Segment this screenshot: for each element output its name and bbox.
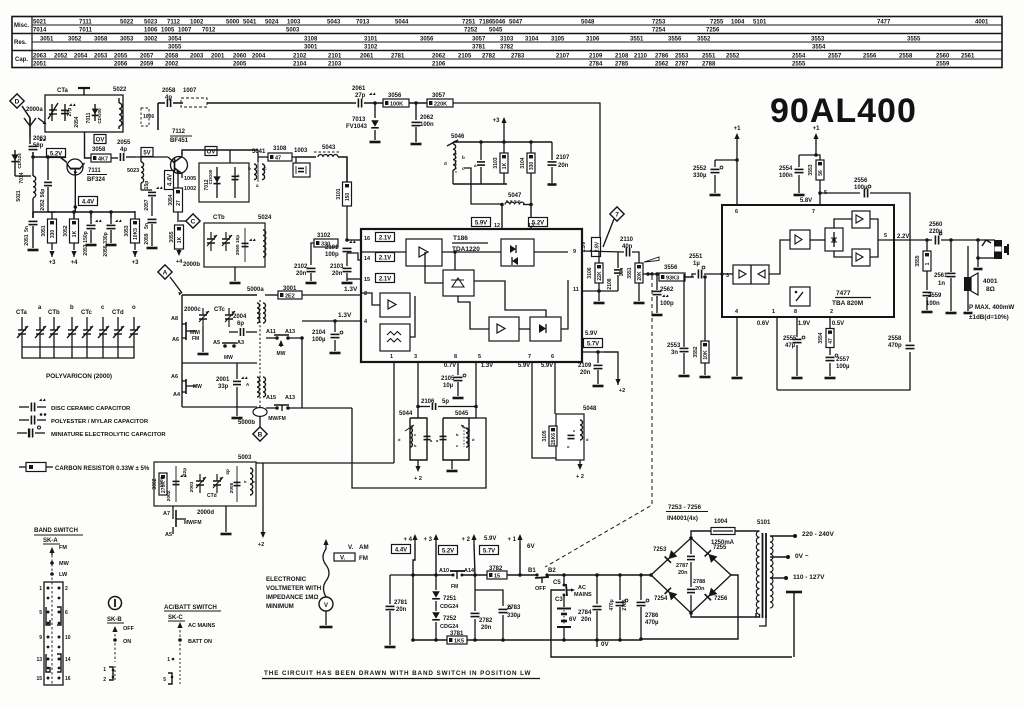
legend carbon resistor symbol — [19, 466, 26, 468]
svg-text:7477: 7477 — [877, 20, 891, 26]
svg-text:3108: 3108 — [304, 37, 318, 43]
svg-text:47µ: 47µ — [785, 343, 796, 349]
svg-text:2.1V: 2.1V — [379, 255, 391, 261]
svg-text:2556: 2556 — [854, 178, 868, 184]
svg-text:OFF: OFF — [535, 586, 547, 592]
svg-text:6p: 6p — [237, 321, 244, 327]
wire 5003 right — [262, 463, 264, 536]
svg-text:10K5: 10K5 — [133, 228, 139, 240]
voltage 4.4V ps — [392, 545, 411, 554]
svg-text:20n: 20n — [695, 586, 705, 592]
svg-text:2551: 2551 — [689, 254, 703, 260]
svg-text:9: 9 — [573, 249, 576, 255]
resistor 3106 B22K — [598, 251, 600, 263]
svg-text:3053: 3053 — [124, 225, 130, 236]
wire pin3 down — [417, 362, 419, 418]
svg-text:2782: 2782 — [482, 54, 496, 60]
voltage 5.2V — [47, 149, 66, 158]
svg-text:2110: 2110 — [634, 54, 648, 60]
supply +2 2109 — [617, 383, 619, 385]
svg-text:330: 330 — [529, 162, 535, 171]
svg-text:5.9V: 5.9V — [518, 363, 530, 369]
svg-text:3104: 3104 — [520, 157, 526, 168]
svg-text:7477: 7477 — [836, 290, 851, 297]
amp out block top — [852, 211, 870, 228]
resistor 3553 B56 — [816, 160, 824, 180]
svg-text:1006: 1006 — [144, 28, 158, 34]
svg-text:+1: +1 — [734, 126, 742, 132]
svg-text:2057: 2057 — [140, 54, 154, 60]
svg-text:o: o — [132, 305, 136, 311]
svg-text:3051: 3051 — [40, 37, 54, 43]
svg-text:2553: 2553 — [667, 343, 681, 349]
svg-text:0.5V: 0.5V — [832, 321, 844, 327]
svg-text:b: b — [248, 166, 251, 171]
wire pin1 down — [393, 362, 395, 463]
svg-text:3102: 3102 — [364, 45, 378, 51]
svg-text:A4: A4 — [173, 392, 181, 398]
svg-text:2004: 2004 — [252, 54, 266, 60]
wire to 2551 — [685, 274, 696, 277]
wire AGC arrow — [590, 245, 600, 251]
svg-text:7112: 7112 — [172, 129, 186, 135]
svg-text:5p: 5p — [442, 399, 449, 405]
svg-text:2560: 2560 — [929, 222, 943, 228]
svg-text:1: 1 — [772, 309, 775, 315]
svg-text:3553: 3553 — [811, 37, 825, 43]
svg-text:3551: 3551 — [627, 267, 633, 278]
svg-text:15: 15 — [494, 574, 500, 580]
wire 5024 gnd — [234, 267, 236, 281]
svg-text:1250mA: 1250mA — [711, 540, 735, 546]
svg-text:5.9V: 5.9V — [541, 363, 553, 369]
svg-text:5: 5 — [39, 610, 42, 616]
svg-text:SK-B: SK-B — [107, 617, 122, 623]
volume pot 3551 — [635, 263, 643, 283]
svg-text:C3: C3 — [555, 597, 563, 603]
svg-text:5023: 5023 — [127, 168, 139, 174]
svg-text:2003: 2003 — [190, 54, 204, 60]
amp output wire — [894, 239, 932, 241]
amp IC TBA820M box — [722, 205, 894, 317]
svg-text:2002: 2002 — [166, 490, 172, 501]
wire top AGC rail — [207, 102, 356, 104]
resistor 3055 1K — [175, 225, 184, 249]
svg-text:AC: AC — [578, 585, 586, 591]
svg-text:5n: 5n — [144, 223, 150, 229]
wire A13 join — [288, 338, 302, 408]
node A diamond — [158, 265, 172, 279]
svg-text:56: 56 — [818, 170, 824, 176]
svg-text:11: 11 — [573, 287, 579, 293]
svg-text:1005: 1005 — [161, 28, 175, 34]
wire pin6 down — [554, 362, 556, 414]
switch SK-B lever — [114, 628, 116, 632]
svg-text:CTb: CTb — [48, 310, 60, 316]
svg-text:A: A — [163, 269, 168, 276]
wire 5046 top — [453, 141, 552, 143]
svg-text:BF451: BF451 — [170, 138, 189, 144]
legend polyester capacitor symbol — [19, 419, 29, 421]
svg-text:3052: 3052 — [63, 225, 69, 236]
svg-text:2000b: 2000b — [183, 262, 200, 268]
wire pin14 — [347, 259, 361, 261]
svg-text:3106: 3106 — [586, 37, 600, 43]
svg-text:5044: 5044 — [399, 411, 413, 417]
amp pin4 wire — [736, 317, 738, 376]
svg-text:2005: 2005 — [233, 62, 247, 68]
svg-text:10n: 10n — [619, 268, 625, 277]
svg-text:100n: 100n — [779, 173, 793, 179]
svg-text:2554: 2554 — [779, 166, 793, 172]
antenna — [24, 118, 30, 126]
svg-text:15: 15 — [364, 277, 370, 283]
svg-text:3058: 3058 — [94, 37, 108, 43]
wire 2000c gnd — [202, 327, 204, 352]
svg-text:2.8V: 2.8V — [594, 241, 600, 252]
svg-text:Cap.: Cap. — [15, 57, 28, 63]
svg-text:5024: 5024 — [265, 20, 279, 26]
svg-text:20K: 20K — [637, 271, 643, 281]
voltage OV b — [205, 147, 217, 156]
wire antenna feed — [22, 106, 30, 137]
svg-text:330µ: 330µ — [507, 613, 521, 619]
capacitor 2053 150p — [90, 218, 92, 224]
svg-text:100µ: 100µ — [854, 185, 868, 191]
demod block diodes — [501, 239, 534, 266]
diode 7255 — [705, 550, 718, 563]
svg-text:47: 47 — [275, 156, 281, 162]
svg-text:7014: 7014 — [19, 172, 25, 183]
supply +1 right — [815, 135, 817, 141]
svg-text:+ 2: + 2 — [414, 476, 422, 482]
voltage 5.2V pin13 — [529, 218, 548, 227]
svg-text:27p: 27p — [355, 93, 366, 99]
svg-text:b: b — [70, 305, 74, 311]
svg-text:+ 2: + 2 — [461, 537, 470, 543]
svg-text:+3: +3 — [132, 260, 140, 266]
svg-text:14: 14 — [65, 657, 71, 663]
svg-text:1: 1 — [39, 586, 42, 592]
svg-text:7186: 7186 — [479, 20, 493, 26]
svg-text:2056: 2056 — [114, 62, 128, 68]
svg-text:3555: 3555 — [907, 37, 921, 43]
svg-text:5.9V: 5.9V — [484, 536, 496, 542]
svg-text:8Ω: 8Ω — [986, 286, 995, 293]
svg-text:2062: 2062 — [420, 115, 434, 121]
svg-text:20n: 20n — [396, 607, 407, 613]
wire pin5 down — [475, 362, 477, 418]
svg-text:3108: 3108 — [273, 146, 287, 152]
svg-text:100n: 100n — [420, 122, 434, 128]
svg-text:5045: 5045 — [489, 28, 503, 34]
wire base feed — [33, 152, 67, 163]
svg-text:330p: 330p — [103, 232, 109, 243]
svg-text:2551: 2551 — [702, 54, 716, 60]
svg-text:2106: 2106 — [432, 62, 446, 68]
svg-text:+2: +2 — [258, 542, 264, 548]
amp pin6 wire — [736, 160, 738, 205]
svg-text:25K6: 25K6 — [551, 433, 557, 445]
svg-text:CTc: CTc — [81, 310, 93, 316]
svg-text:100µ: 100µ — [836, 364, 850, 370]
amp mid block — [790, 230, 810, 249]
svg-text:2003: 2003 — [189, 481, 195, 492]
svg-text:3781: 3781 — [472, 45, 486, 51]
svg-text:MW/FM: MW/FM — [268, 416, 286, 422]
svg-text:3057: 3057 — [472, 37, 486, 43]
svg-text:2108: 2108 — [615, 54, 629, 60]
svg-text:3055: 3055 — [168, 45, 182, 51]
wire AM to 5045 — [352, 408, 486, 488]
coil 5022 — [119, 103, 122, 126]
wire 7111 base — [48, 156, 66, 158]
svg-text:7251: 7251 — [443, 596, 457, 602]
svg-text:7252: 7252 — [443, 616, 457, 622]
svg-text:1004: 1004 — [731, 20, 745, 26]
voltmeter symbol — [325, 541, 327, 549]
wire pin7 down — [531, 362, 533, 455]
svg-text:1.3V: 1.3V — [338, 312, 352, 319]
svg-text:7: 7 — [528, 354, 531, 360]
svg-text:1: 1 — [103, 667, 106, 673]
svg-text:2001: 2001 — [211, 54, 225, 60]
svg-text:MW: MW — [59, 561, 70, 567]
svg-text:VOLTMETER WITH: VOLTMETER WITH — [266, 585, 322, 592]
svg-text:BAND SWITCH: BAND SWITCH — [34, 527, 79, 534]
svg-text:Res.: Res. — [14, 40, 27, 46]
svg-text:5048: 5048 — [583, 406, 597, 412]
capacitor 2056 330p — [110, 218, 112, 224]
wire +1 left — [736, 141, 738, 160]
svg-text:B2: B2 — [548, 568, 556, 574]
svg-text:0.7V: 0.7V — [444, 363, 456, 369]
node D diamond — [10, 94, 24, 108]
resistor 3552 B10K — [701, 341, 709, 363]
svg-text:15p: 15p — [144, 181, 150, 190]
svg-text:2000d: 2000d — [197, 510, 214, 516]
wire pin11 — [582, 290, 618, 292]
svg-text:2557: 2557 — [828, 54, 842, 60]
svg-text:+ 1: + 1 — [507, 537, 516, 543]
amp block A3 — [489, 317, 519, 341]
svg-text:b: b — [462, 155, 465, 160]
diode 7256 — [705, 588, 718, 601]
svg-text:3056: 3056 — [420, 37, 434, 43]
svg-text:3551: 3551 — [630, 37, 644, 43]
svg-text:5021: 5021 — [16, 190, 22, 201]
svg-text:4p: 4p — [225, 469, 231, 475]
wire 7112 base — [168, 157, 175, 163]
amp internal wiring — [722, 273, 733, 275]
wire pin4 rail — [302, 320, 361, 322]
svg-text:2000c: 2000c — [184, 307, 201, 313]
svg-text:20n: 20n — [296, 271, 307, 277]
svg-text:1002: 1002 — [190, 20, 204, 26]
wire +1 right — [816, 141, 820, 161]
svg-text:2063: 2063 — [33, 54, 47, 60]
svg-text:3: 3 — [414, 354, 417, 360]
svg-text:5046: 5046 — [492, 20, 506, 26]
svg-text:2: 2 — [364, 291, 367, 297]
svg-text:2558: 2558 — [899, 54, 913, 60]
svg-text:7: 7 — [615, 211, 619, 218]
svg-text:7252: 7252 — [464, 28, 478, 34]
svg-text:470µ: 470µ — [609, 599, 615, 610]
svg-text:1.3V: 1.3V — [481, 363, 493, 369]
svg-text:V: V — [324, 603, 328, 609]
svg-text:2784: 2784 — [578, 610, 592, 616]
amp pin1 wire — [776, 317, 778, 390]
svg-text:5022: 5022 — [120, 20, 134, 26]
svg-text:330: 330 — [50, 230, 56, 239]
svg-text:7112: 7112 — [167, 20, 181, 26]
wire to pin16 — [347, 239, 361, 241]
svg-text:SK-C: SK-C — [168, 615, 183, 621]
svg-text:8: 8 — [794, 309, 797, 315]
wire collector 7111 — [85, 132, 92, 158]
wire 2058 stub — [157, 103, 159, 130]
svg-text:3105: 3105 — [542, 430, 548, 441]
svg-text:5045: 5045 — [455, 411, 469, 417]
supply +3 b — [134, 255, 136, 257]
svg-text:2782: 2782 — [479, 618, 493, 624]
legend miniature electrolytic symbol — [17, 432, 27, 434]
svg-text:4.4V: 4.4V — [395, 547, 407, 553]
svg-text:±1dB(d=10%): ±1dB(d=10%) — [969, 314, 1009, 321]
svg-text:3101: 3101 — [364, 37, 378, 43]
svg-text:IN4001(4x): IN4001(4x) — [667, 515, 698, 522]
svg-text:2108: 2108 — [607, 278, 613, 289]
svg-text:A7: A7 — [163, 511, 170, 517]
svg-text:3055: 3055 — [169, 231, 175, 242]
amp bias block — [825, 228, 843, 251]
wire 7112 out — [182, 150, 258, 155]
wire pin2 rail — [302, 293, 361, 295]
svg-text:5047: 5047 — [508, 193, 522, 199]
diode 7254 — [665, 588, 678, 601]
svg-text:5041: 5041 — [243, 20, 257, 26]
svg-text:5047: 5047 — [509, 20, 523, 26]
dashed net line — [545, 276, 652, 567]
svg-text:3782: 3782 — [500, 45, 514, 51]
svg-text:7011: 7011 — [86, 112, 92, 123]
diode 7012 CDG00 — [216, 167, 218, 198]
wire pin15 — [347, 278, 361, 280]
svg-text:5V: 5V — [143, 150, 150, 156]
svg-text:+2: +2 — [619, 388, 625, 394]
capacitor 2057 15p — [141, 189, 152, 191]
svg-text:AC MAINS: AC MAINS — [188, 623, 216, 629]
trimmer CTa inside — [51, 104, 53, 121]
svg-text:MW: MW — [277, 351, 286, 357]
svg-text:FM: FM — [359, 555, 368, 562]
svg-text:2102: 2102 — [293, 54, 307, 60]
svg-text:2061: 2061 — [360, 54, 374, 60]
svg-text:0V: 0V — [601, 641, 609, 648]
capacitor 2561 1n — [950, 240, 952, 272]
svg-text:5043: 5043 — [327, 20, 341, 26]
resistor 3054 — [174, 188, 183, 212]
svg-text:2783: 2783 — [511, 54, 525, 60]
svg-text:20n: 20n — [332, 271, 343, 277]
svg-text:150p: 150p — [83, 231, 89, 242]
switch SK-C lever — [179, 624, 181, 628]
svg-text:2103: 2103 — [328, 62, 342, 68]
svg-text:MINIATURE ELECTROLYTIC CAPAC: MINIATURE ELECTROLYTIC CAPACITOR — [51, 432, 166, 438]
wire mid tuning — [182, 362, 257, 364]
svg-text:4001: 4001 — [975, 20, 989, 26]
svg-text:3001: 3001 — [304, 45, 318, 51]
svg-text:1: 1 — [167, 657, 170, 663]
terminal 220-240V — [770, 535, 795, 537]
svg-text:8: 8 — [454, 354, 457, 360]
svg-text:BF324: BF324 — [87, 177, 106, 183]
svg-text:7256: 7256 — [706, 28, 720, 34]
svg-text:2: 2 — [65, 586, 68, 592]
svg-text:V.: V. — [340, 555, 346, 562]
speaker 4001 — [967, 246, 969, 277]
svg-text:2060 18p: 2060 18p — [235, 235, 241, 255]
diode 7014 CDG24 — [14, 150, 16, 176]
wire battery ac return — [551, 590, 792, 657]
svg-text:A3: A3 — [237, 340, 244, 346]
IC T186 TDA1220 box — [361, 229, 582, 362]
svg-text:20n: 20n — [581, 617, 592, 623]
supply +3 a — [51, 255, 53, 257]
oscillator block — [380, 324, 410, 351]
svg-text:C5: C5 — [553, 580, 561, 586]
svg-text:D: D — [15, 98, 20, 105]
wire bridge neg return — [641, 575, 738, 639]
svg-text:2062: 2062 — [432, 54, 446, 60]
svg-text:2562: 2562 — [660, 287, 674, 293]
svg-text:27p: 27p — [67, 108, 73, 117]
coil 5021 — [33, 176, 36, 198]
svg-text:DISC CERAMIC CAPACITOR: DISC CERAMIC CAPACITOR — [51, 406, 131, 412]
svg-text:2561: 2561 — [934, 273, 948, 279]
wire rail A10 — [413, 574, 453, 576]
svg-text:+3: +3 — [493, 118, 501, 124]
svg-text:V.: V. — [348, 544, 354, 551]
resistor 3051 330 — [48, 219, 57, 243]
legend V FM — [334, 553, 355, 561]
svg-text:7111: 7111 — [79, 20, 92, 26]
svg-text:FM: FM — [192, 336, 199, 342]
ground 5045 — [451, 460, 453, 469]
svg-text:2103: 2103 — [330, 264, 344, 270]
svg-text:FM: FM — [451, 584, 458, 590]
capacitor inside 7012 box — [234, 167, 236, 198]
svg-text:5024: 5024 — [258, 215, 272, 221]
wire pin13 — [530, 204, 532, 229]
diode 7253 — [665, 550, 678, 563]
svg-text:5003: 5003 — [286, 28, 300, 34]
svg-text:2: 2 — [103, 677, 106, 683]
svg-text:12: 12 — [494, 223, 500, 229]
resistor 3101 150 — [343, 182, 352, 206]
polyvaricon bus — [22, 346, 134, 348]
svg-text:13: 13 — [528, 223, 534, 229]
svg-text:3555: 3555 — [915, 255, 921, 266]
svg-text:100p: 100p — [660, 301, 674, 307]
svg-text:2054: 2054 — [74, 116, 80, 127]
svg-text:33p: 33p — [218, 384, 229, 390]
wire A13 to pin4 — [302, 321, 361, 360]
svg-text:1003: 1003 — [294, 148, 308, 154]
svg-text:7011: 7011 — [79, 28, 93, 34]
svg-text:POLYESTER / MYLAR CAPACITOR: POLYESTER / MYLAR CAPACITOR — [51, 419, 149, 425]
